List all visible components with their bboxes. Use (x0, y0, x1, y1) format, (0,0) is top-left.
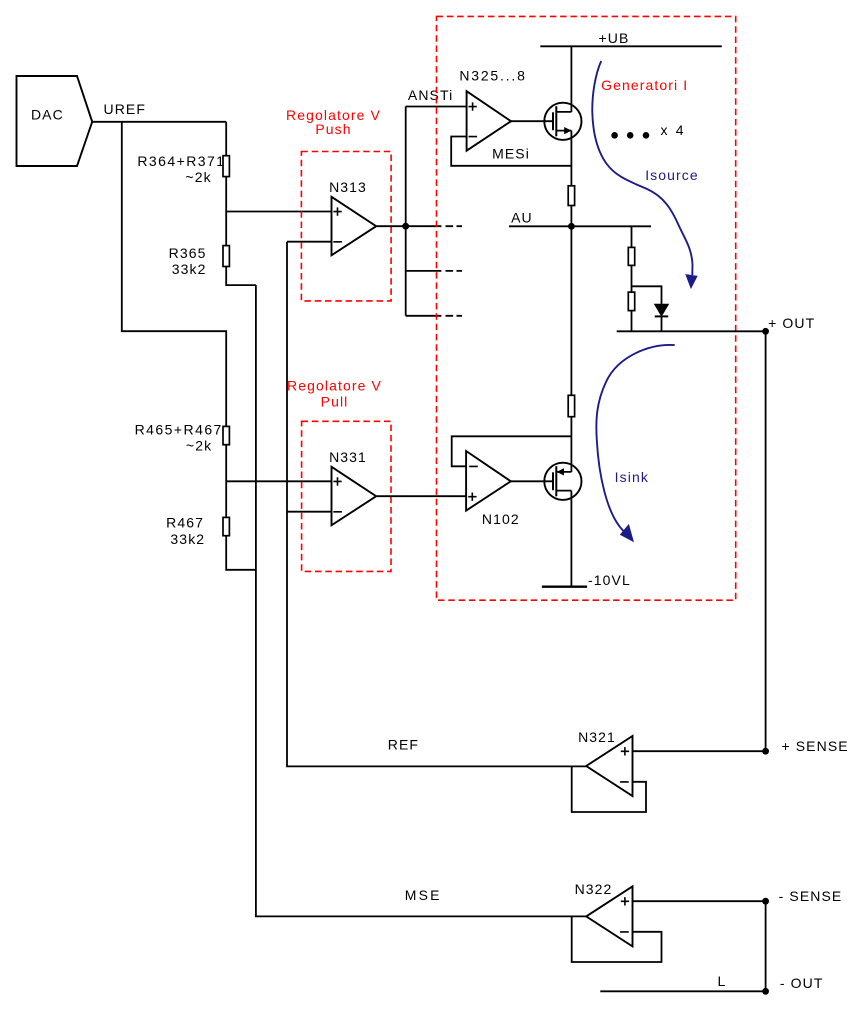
svg-text:N325...8: N325...8 (459, 67, 526, 83)
red dashed box Regolatore V Push (301, 152, 391, 301)
wire dashed stub row1 (446, 225, 463, 227)
wire AU long vertical down (570, 226, 572, 395)
wire -SENSE down to -OUT (765, 901, 767, 991)
wire between resistors (631, 265, 633, 292)
wire +OUT rail (617, 330, 766, 332)
wire resistor to +OUT rail (631, 311, 633, 332)
svg-text:R365: R365 (169, 245, 207, 261)
svg-text:MSE: MSE (405, 887, 442, 903)
node +SENSE junction dot (762, 748, 769, 755)
svg-text:L: L (718, 973, 727, 989)
junction dot N313 output (402, 223, 409, 230)
svg-text:N102: N102 (482, 511, 520, 527)
op-amp N102 (466, 451, 511, 511)
svg-text:+ SENSE: + SENSE (781, 738, 848, 754)
resistor R465+R467 (223, 426, 229, 444)
bullets x 4 (611, 132, 618, 139)
transistor Q1 mosfet source generator (544, 103, 581, 140)
wire N321 + input (633, 750, 766, 752)
resistor generator upper (628, 247, 634, 265)
power rail +UB (540, 45, 722, 47)
wire right branch from AU (631, 226, 633, 247)
svg-text:R465+R467: R465+R467 (135, 422, 223, 438)
svg-text:Isink: Isink (615, 469, 649, 485)
svg-text:Regolatore V: Regolatore V (287, 378, 382, 394)
wire resistor to AU (570, 206, 572, 227)
resistor R365 (223, 246, 229, 267)
op-amp N321 buffer (586, 736, 632, 796)
wire N331 output to N102 + input (376, 495, 466, 497)
wire R364 bottom to R365 top (225, 177, 227, 246)
svg-text:N313: N313 (329, 179, 367, 195)
node +OUT junction dot (762, 328, 769, 335)
svg-text:~2k: ~2k (185, 169, 211, 185)
node -SENSE junction dot (762, 898, 769, 905)
svg-text:+UB: +UB (599, 30, 630, 46)
wire ANSTi vertical (405, 107, 407, 316)
Isink blue current arrow (596, 345, 674, 532)
wire resistor to Q2 drain (570, 417, 572, 472)
wire R467 bottom jog to long vertical (226, 536, 256, 570)
wire N331 - input stub (287, 511, 332, 513)
svg-text:x: x (661, 122, 669, 138)
svg-text:Generatori I: Generatori I (601, 77, 688, 93)
svg-text:~2k: ~2k (186, 437, 212, 453)
svg-text:REF: REF (388, 737, 419, 753)
svg-text:ANSTi: ANSTi (408, 87, 453, 103)
red dashed box Regolatore V Pull (302, 421, 391, 571)
wire divider1 tap to N313 + input (226, 211, 331, 213)
wire N322 + input (633, 900, 766, 902)
DAC U-DAC (17, 76, 93, 166)
wire N313 output (376, 225, 441, 227)
svg-text:-10VL: -10VL (588, 572, 631, 588)
svg-text:Isource: Isource (645, 167, 699, 183)
wire divider2 tap to N331 + input (226, 480, 331, 482)
wire N102 - feedback (452, 436, 572, 466)
wire +OUT down to +SENSE (765, 331, 767, 751)
svg-text:33k2: 33k2 (170, 531, 205, 547)
node AU junction dot (568, 223, 575, 230)
svg-text:AU: AU (511, 210, 533, 226)
wire N325 - feedback MESi (451, 137, 571, 166)
wire branch to diode (632, 286, 662, 304)
red dashed box Generatori I (437, 16, 736, 600)
op-amp N322 buffer (586, 886, 632, 946)
svg-text:4: 4 (676, 122, 685, 138)
svg-text:+ OUT: + OUT (768, 315, 815, 331)
wire N321 - feedback loop (572, 766, 646, 812)
svg-text:33k2: 33k2 (172, 261, 207, 277)
wire feedback vertical REF to N321 tip (287, 242, 586, 767)
wire N313 - input stub (287, 241, 332, 243)
wire Q2 source down to -10VL (570, 491, 572, 587)
svg-text:N322: N322 (575, 881, 613, 897)
ground -10VL (542, 586, 587, 588)
svg-text:Pull: Pull (321, 394, 349, 410)
svg-text:DAC: DAC (31, 107, 64, 123)
resistor R467 (223, 517, 229, 535)
svg-text:UREF: UREF (104, 101, 147, 117)
op-amp N313 (332, 197, 377, 256)
diode D1 (655, 304, 669, 316)
resistor source degeneration (568, 186, 574, 206)
resistor generator lower (628, 292, 634, 311)
wire Q1 source down (570, 131, 572, 186)
Isource blue current arrow (592, 61, 692, 275)
wire stub row3 (406, 315, 442, 317)
svg-text:Push: Push (315, 121, 351, 137)
resistor R364+R371 (223, 156, 229, 177)
wire R465 bottom to R467 top (225, 445, 227, 518)
wire N325 output to Q1 gate (511, 120, 553, 122)
op-amp N325...8 (467, 91, 511, 151)
svg-text:R364+R371: R364+R371 (137, 153, 225, 169)
wire R365 bottom jog (226, 267, 256, 286)
wire AU rail (509, 225, 651, 227)
wire DAC output to divider top (92, 121, 226, 123)
wire ANSTi horizontal to N325 + input (406, 106, 467, 108)
wire -OUT line (600, 990, 765, 992)
resistor sink degeneration (568, 395, 574, 416)
wire UREF down-left branch (122, 122, 226, 427)
svg-text:N331: N331 (329, 449, 367, 465)
wire N322 - feedback loop (572, 916, 662, 962)
op-amp N331 (332, 467, 377, 526)
svg-text:- SENSE: - SENSE (779, 888, 843, 904)
wire divider1 top segment (225, 122, 227, 156)
wire Q1 drain to +UB (570, 46, 572, 112)
svg-text:MESi: MESi (492, 146, 530, 162)
wire long vertical to MSE and N322 tip (256, 285, 586, 916)
node -OUT junction dot (762, 988, 769, 995)
svg-text:N321: N321 (578, 729, 616, 745)
wire stub row2 (406, 270, 442, 272)
svg-text:- OUT: - OUT (780, 975, 824, 991)
transistor Q2 mosfet sink (544, 463, 581, 500)
wire N102 output to Q2 gate (511, 480, 553, 482)
svg-text:R467: R467 (166, 515, 204, 531)
